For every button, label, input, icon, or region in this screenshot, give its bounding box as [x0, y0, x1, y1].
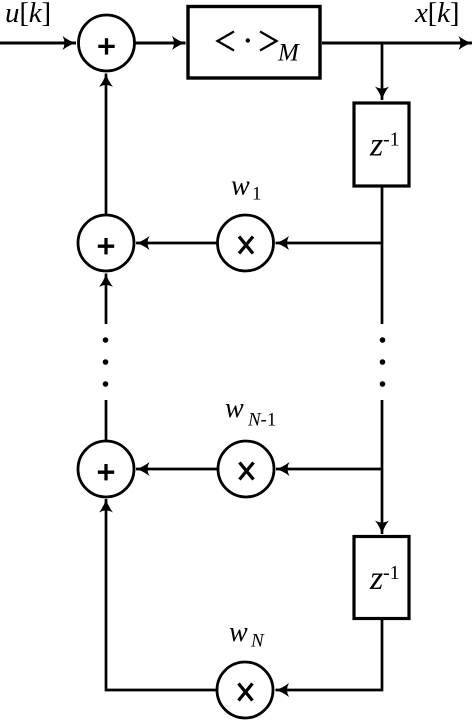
svg-text:w: w: [225, 393, 244, 424]
svg-text:-1: -1: [383, 562, 400, 584]
wire summer S1 to decimator box: [135, 42, 186, 45]
svg-text:z: z: [369, 127, 383, 164]
svg-text:M: M: [277, 40, 300, 67]
wire multiplier X2 to summer S3: [136, 468, 217, 471]
wire decimator to output x[k]: [322, 42, 472, 45]
svg-text:N: N: [250, 631, 265, 652]
svg-text:-1: -1: [261, 410, 277, 431]
decimator box <.>M: [188, 7, 320, 79]
wire tap to multiplier X1: [276, 242, 383, 245]
delay box Z2 (z^-1): [354, 537, 409, 619]
summer S3: [78, 441, 134, 497]
svg-text:x[k]: x[k]: [414, 0, 459, 29]
ellipsis dots right column: [380, 337, 386, 343]
multiplier X2: [218, 441, 274, 497]
summer S1 (top adder): [79, 15, 135, 71]
svg-text:z: z: [369, 560, 383, 597]
wire input u[k] to summer S1: [0, 42, 76, 45]
svg-text:1: 1: [252, 184, 262, 205]
wire into summer S2 from below: [105, 274, 108, 325]
wire delay Z1 down to tap junction row 2: [381, 186, 384, 324]
wire multiplier X1 to summer S2: [136, 242, 217, 245]
summer S2: [78, 215, 134, 271]
wire left column below dots to summer S3: [105, 400, 108, 440]
svg-text:u[k]: u[k]: [5, 0, 51, 29]
multiplier X1: [218, 215, 274, 271]
multiplier X3: [217, 662, 273, 718]
wire branch down to delay Z1: [381, 43, 384, 100]
wire tap to multiplier X2: [276, 468, 382, 471]
wire delay Z2 down and left to multiplier X3: [276, 619, 383, 690]
ellipsis dots left column: [103, 337, 109, 343]
wire into summer S3 from below: [106, 499, 217, 690]
wire summer S2 up to summer S1: [105, 74, 108, 215]
wire right column below dots to delay Z2: [381, 400, 384, 534]
svg-text:w: w: [229, 617, 248, 648]
svg-text:w: w: [231, 171, 250, 202]
delay box Z1 (z^-1): [354, 103, 409, 186]
svg-text:-1: -1: [383, 129, 400, 151]
